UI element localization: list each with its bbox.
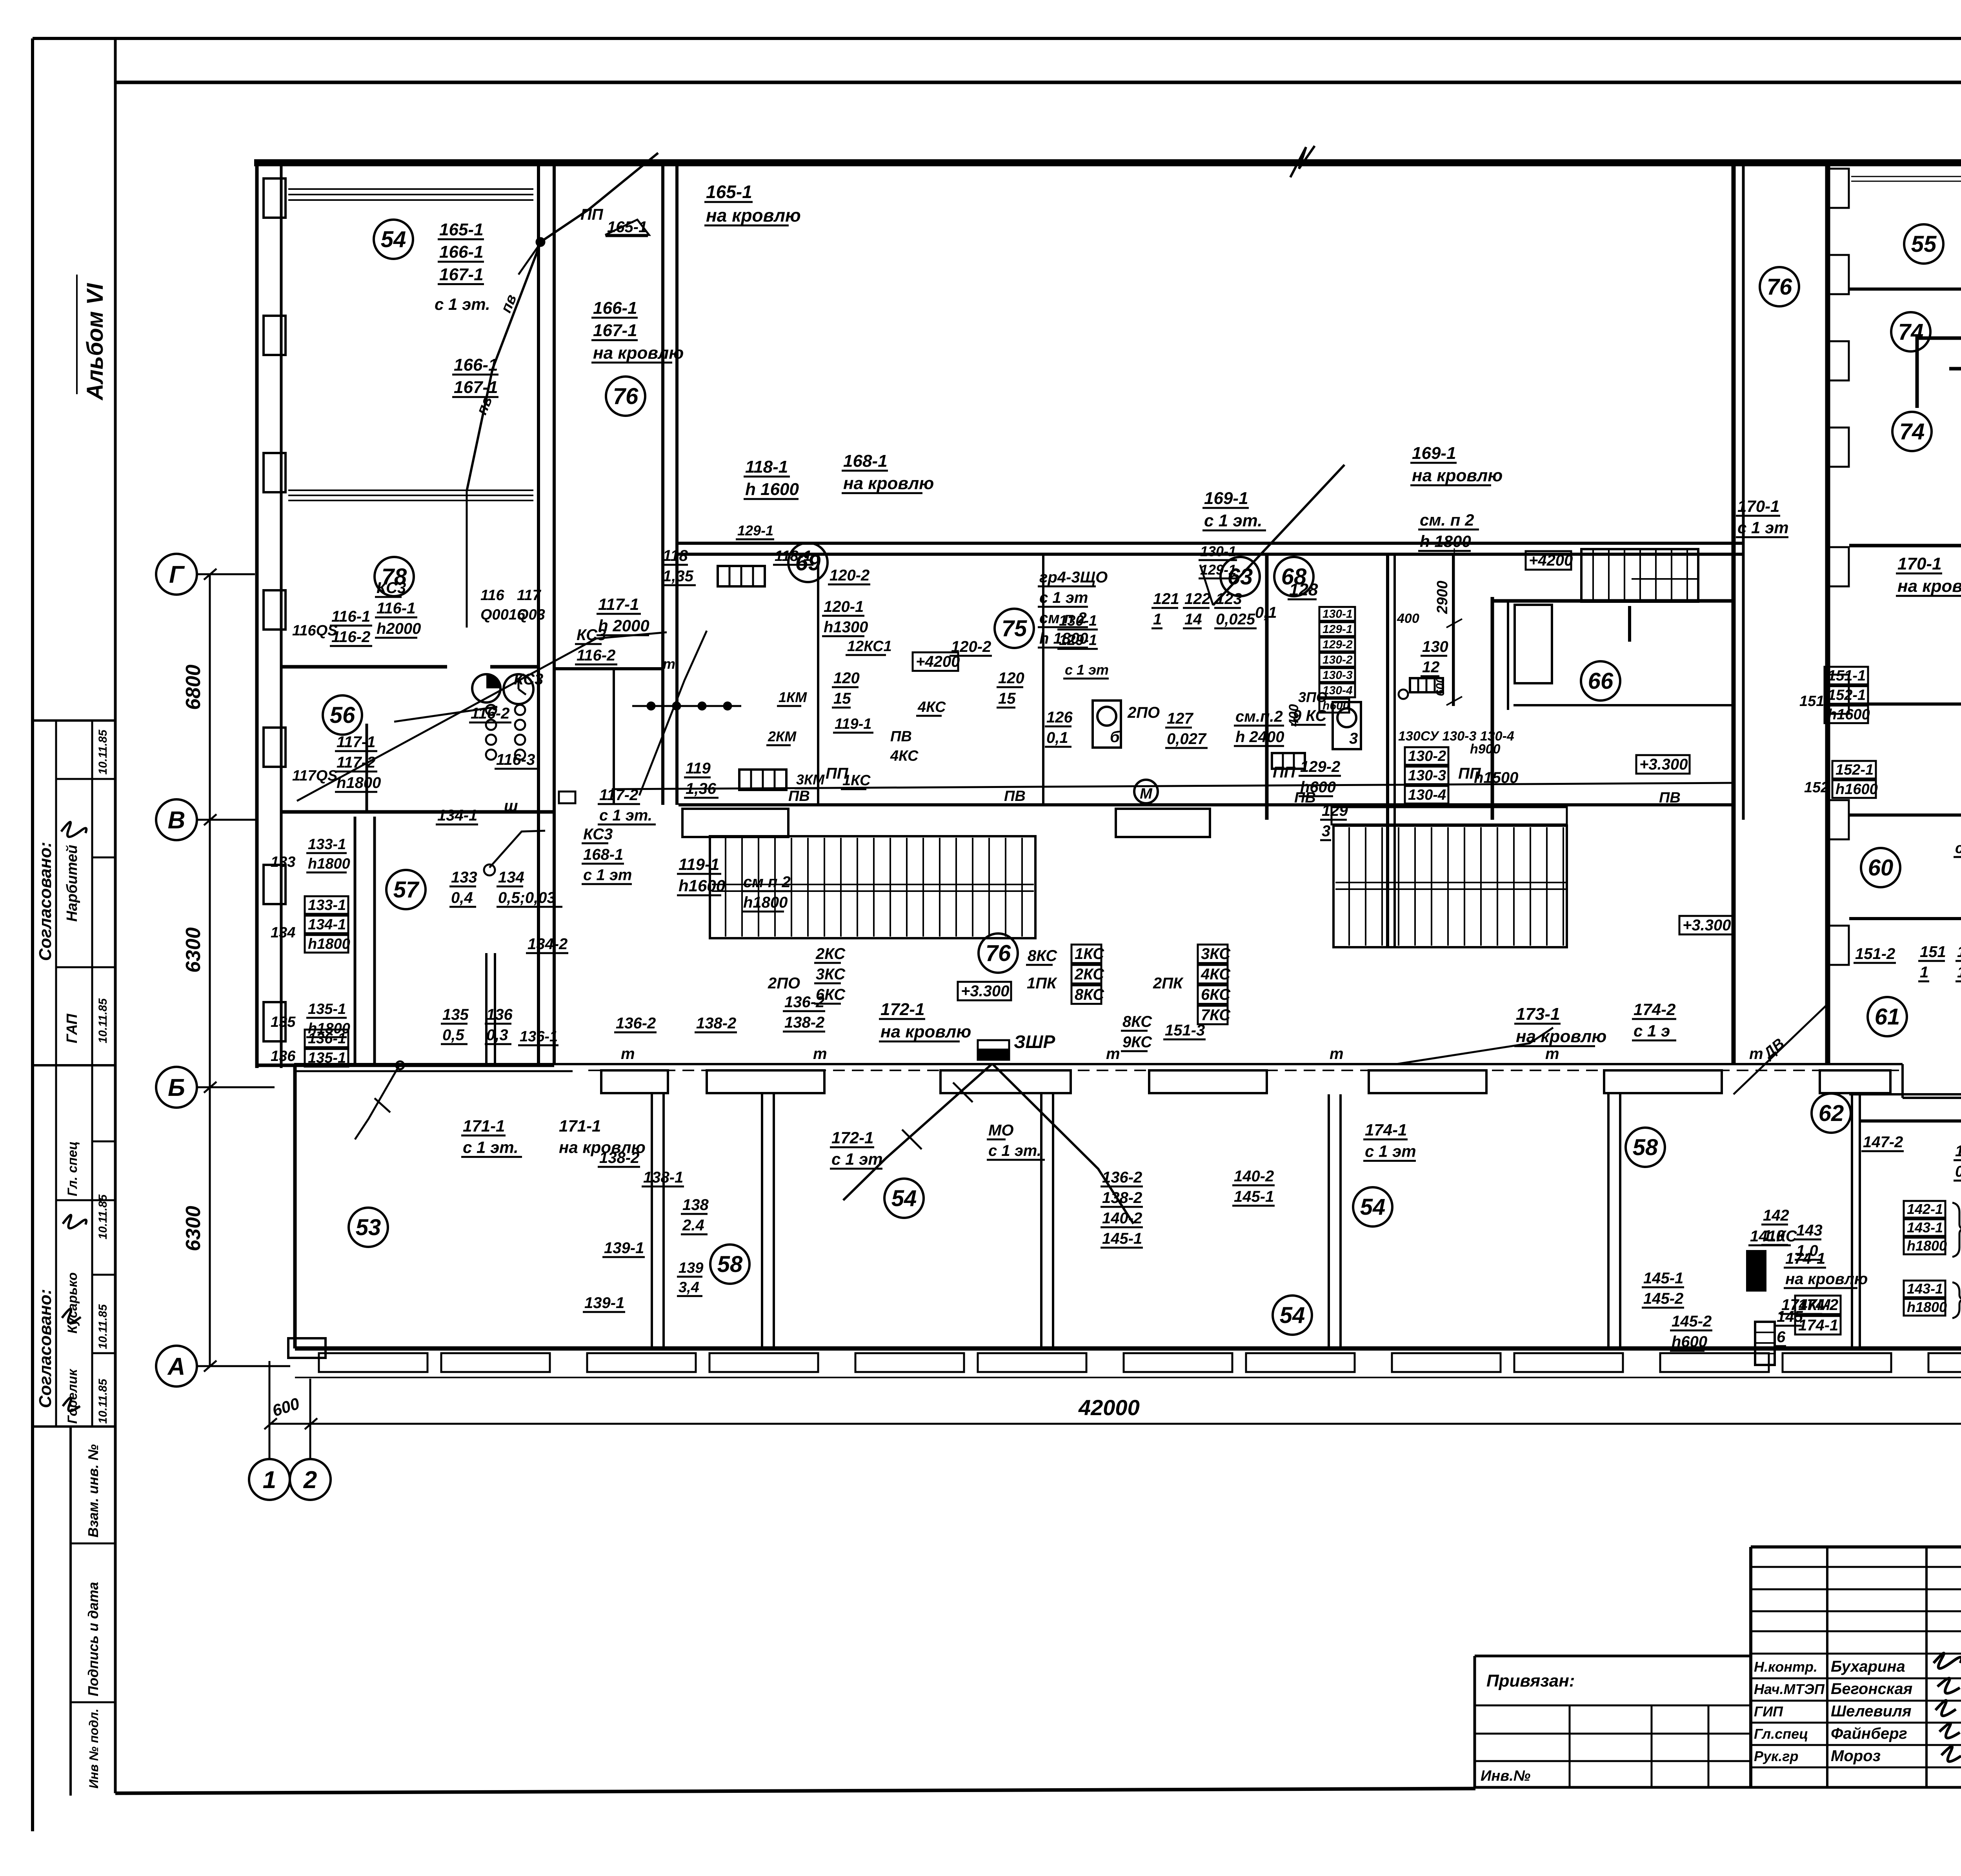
right wing window band	[1851, 181, 1961, 182]
svg-text:140-2: 140-2	[1102, 1210, 1142, 1227]
svg-text:138-2: 138-2	[1102, 1189, 1142, 1206]
label 169-1 a	[1202, 489, 1266, 530]
svg-text:h1800: h1800	[1907, 1299, 1947, 1315]
svg-text:h1300: h1300	[824, 619, 868, 636]
svg-text:0,025: 0,025	[1216, 611, 1255, 628]
svg-text:145-1: 145-1	[1102, 1230, 1142, 1247]
label 147-2	[1861, 1134, 1904, 1151]
label 119 frac	[684, 760, 719, 798]
svg-text:170-1: 170-1	[1737, 497, 1779, 515]
node 129	[1399, 690, 1408, 699]
room 53 west wall	[293, 1065, 297, 1348]
right wing pilaster	[1828, 255, 1849, 294]
svg-text:2.4: 2.4	[682, 1217, 704, 1234]
label 174-1 roof	[1784, 1250, 1868, 1288]
label 139-1 a	[602, 1239, 645, 1257]
svg-text:с 1 эт: с 1 эт	[583, 866, 632, 884]
svg-text:121: 121	[1153, 590, 1179, 608]
axis line B	[197, 1086, 275, 1088]
radiator symbol 119	[739, 770, 786, 790]
sidebar divider	[114, 38, 117, 1793]
room 66 west wall inner	[1507, 601, 1509, 710]
label 120-2 b	[950, 638, 992, 656]
sidebar box Podpis i data	[71, 1701, 115, 1703]
label 130-1 b	[1199, 543, 1237, 579]
partition 54/59	[1849, 702, 1961, 706]
partition mid d	[1265, 554, 1269, 820]
room circle 75	[995, 609, 1034, 648]
svg-text:с 1 эт.: с 1 эт.	[599, 807, 652, 824]
left wing top wall	[254, 159, 572, 166]
svg-text:h600: h600	[1672, 1333, 1707, 1350]
label 152 frac	[1956, 943, 1961, 981]
heater 141 symbol	[1747, 1251, 1765, 1290]
label sm p2 h1800	[1418, 511, 1479, 551]
dim tick	[204, 1082, 216, 1093]
label 140-2	[1232, 1168, 1275, 1206]
svg-text:118-1: 118-1	[775, 548, 811, 564]
label KS3 116-2	[575, 626, 617, 664]
svg-text:56: 56	[330, 702, 355, 728]
room circle 57	[386, 870, 426, 909]
svg-text:167-1: 167-1	[454, 378, 498, 397]
svg-text:2ПО: 2ПО	[1127, 704, 1160, 721]
svg-text:2КС: 2КС	[1074, 966, 1104, 983]
svg-text:143-1: 143-1	[1907, 1219, 1943, 1236]
svg-text:Инв.№: Инв.№	[1481, 1768, 1530, 1784]
svg-text:141КС: 141КС	[1750, 1228, 1797, 1245]
label 118 frac	[661, 547, 696, 585]
svg-text:117-2: 117-2	[599, 786, 638, 804]
label 174-1 b	[1363, 1121, 1416, 1161]
classroom partition	[1859, 1094, 1861, 1349]
label 171-1 a	[461, 1117, 522, 1157]
svg-text:т: т	[663, 656, 675, 672]
label 174KM	[1780, 1296, 1831, 1314]
svg-text:с 1 эт.: с 1 эт.	[1204, 511, 1262, 530]
corridor south wall west part	[294, 1063, 1903, 1065]
svg-text:ГИП: ГИП	[1754, 1703, 1783, 1720]
svg-text:142: 142	[1763, 1207, 1789, 1224]
svg-text:1,35: 1,35	[663, 568, 694, 585]
svg-text:135: 135	[442, 1006, 469, 1023]
svg-text:0,4: 0,4	[451, 889, 473, 906]
stair B top landing	[1332, 807, 1567, 824]
svg-text:Кусарько: Кусарько	[65, 1272, 80, 1334]
label 174-2 b	[1632, 1000, 1676, 1041]
staircase B	[1333, 826, 1567, 947]
svg-text:151-1: 151-1	[1828, 668, 1866, 684]
svg-text:170-1: 170-1	[1897, 554, 1942, 573]
svg-text:3,4: 3,4	[679, 1279, 699, 1296]
svg-text:Гл. спец: Гл. спец	[65, 1141, 80, 1196]
svg-text:116-2: 116-2	[471, 705, 509, 722]
svg-text:с 1 эт.: с 1 эт.	[988, 1142, 1041, 1159]
svg-text:130-2: 130-2	[1322, 653, 1353, 666]
svg-text:54: 54	[1360, 1194, 1386, 1220]
svg-text:6300: 6300	[182, 927, 205, 973]
svg-text:см. п 2: см. п 2	[1420, 511, 1474, 529]
svg-text:118-1: 118-1	[745, 457, 788, 477]
label 116-1	[330, 608, 372, 646]
svg-text:10.11.85: 10.11.85	[96, 1378, 109, 1424]
dim tick	[1446, 697, 1462, 705]
corridor south wall east part	[1903, 1097, 1961, 1099]
svg-text:130-4: 130-4	[1322, 684, 1353, 697]
room circle 78	[375, 557, 414, 596]
svg-text:Q03: Q03	[517, 606, 545, 623]
svg-text:136-1: 136-1	[520, 1028, 558, 1045]
svg-text:152-1: 152-1	[1828, 687, 1866, 703]
svg-text:с 1 эт: с 1 эт	[1039, 589, 1088, 606]
svg-text:h 1600: h 1600	[745, 480, 799, 499]
svg-text:60: 60	[1868, 855, 1894, 881]
svg-text:т: т	[621, 1045, 635, 1063]
svg-text:Б: Б	[168, 1074, 185, 1101]
svg-text:М: М	[1140, 786, 1153, 802]
svg-text:145-1: 145-1	[1643, 1270, 1683, 1287]
svg-text:0,1 0,17: 0,1 0,17	[1955, 1163, 1961, 1180]
svg-text:с 1 эт.: с 1 эт.	[435, 295, 490, 313]
svg-text:ПВ: ПВ	[1004, 788, 1026, 804]
svg-text:57: 57	[393, 877, 420, 903]
label 120-1	[822, 598, 868, 636]
facade window	[1928, 1353, 1961, 1372]
svg-text:133-1: 133-1	[308, 897, 346, 913]
axis line V	[197, 819, 257, 821]
label gr4-3ShchO	[1038, 569, 1108, 648]
axis line G	[197, 573, 255, 575]
privyazan box	[1475, 1655, 1751, 1658]
label 134-1	[436, 807, 478, 824]
svg-text:166-1: 166-1	[454, 355, 498, 375]
svg-text:Файнберг: Файнберг	[1831, 1725, 1907, 1742]
elev +4200 b	[1526, 551, 1573, 570]
svg-text:130-2: 130-2	[1408, 748, 1446, 764]
label 1KM	[777, 689, 807, 706]
label 165-1 roof	[704, 182, 801, 226]
svg-text:152: 152	[1804, 779, 1829, 796]
room circle 62	[1812, 1094, 1851, 1133]
wire PP top-left to roof	[467, 243, 540, 491]
partition mid c	[1042, 554, 1044, 806]
closet wall a	[354, 817, 357, 1065]
svg-text:122: 122	[1184, 590, 1211, 608]
svg-text:на кровлю: на кровлю	[1412, 466, 1503, 485]
svg-text:В: В	[168, 807, 186, 834]
title row name	[1751, 1700, 1961, 1702]
label 136-2 c	[783, 993, 825, 1032]
outer border left	[31, 38, 34, 1831]
svg-text:ГАП: ГАП	[64, 1014, 80, 1043]
svg-text:8КС: 8КС	[1122, 1013, 1152, 1030]
dim tick	[204, 1361, 216, 1372]
svg-text:на кровлю: на кровлю	[880, 1022, 971, 1041]
svg-text:0,3: 0,3	[486, 1026, 508, 1044]
label 3KM	[795, 772, 825, 788]
svg-text:12: 12	[1422, 659, 1440, 676]
hall east wall outer	[1732, 163, 1736, 1065]
svg-text:129-1: 129-1	[1322, 623, 1353, 636]
label 129 frac	[1320, 802, 1348, 840]
hall top wall	[572, 159, 1743, 166]
room circle 54	[884, 1179, 924, 1218]
svg-text:167-1: 167-1	[593, 321, 637, 340]
facade window	[1246, 1353, 1355, 1372]
title row name	[1751, 1744, 1961, 1746]
classroom partition	[761, 1094, 763, 1349]
axis dim chain	[209, 574, 211, 1366]
partition 59/60	[1849, 813, 1961, 817]
room 53 top wall inner	[294, 1070, 573, 1072]
room 57 inner wall b	[494, 953, 496, 1065]
svg-text:Мороз: Мороз	[1831, 1747, 1881, 1765]
west facade pilaster	[264, 865, 286, 904]
label 142 frac	[1761, 1207, 1789, 1245]
svg-text:147-2: 147-2	[1863, 1134, 1903, 1151]
svg-text:с 1 эт: с 1 эт	[1065, 662, 1109, 678]
svg-text:133-1: 133-1	[308, 836, 346, 853]
svg-text:Согласовано:: Согласовано:	[36, 842, 55, 961]
sidebar signatures block B	[62, 1215, 86, 1411]
svg-text:0,5;0,03: 0,5;0,03	[498, 889, 556, 906]
svg-text:Бухарина: Бухарина	[1831, 1658, 1905, 1675]
svg-text:МО: МО	[988, 1122, 1013, 1139]
facade window	[1124, 1353, 1232, 1372]
wires at ZShR	[843, 1064, 992, 1200]
label 166-1 roof	[591, 298, 684, 362]
corridor cabinet	[1369, 1070, 1486, 1093]
svg-text:130-1: 130-1	[1059, 613, 1097, 629]
svg-text:136-1: 136-1	[308, 1030, 346, 1047]
label 9KS	[1291, 707, 1327, 725]
svg-text:+4200: +4200	[1529, 552, 1573, 569]
svg-text:т: т	[813, 1045, 827, 1063]
svg-text:117-2: 117-2	[337, 754, 375, 771]
title block	[1751, 1545, 1961, 1548]
svg-text:151-3: 151-3	[1165, 1022, 1205, 1039]
svg-text:129-2: 129-2	[1300, 758, 1340, 775]
svg-text:Гл.спец: Гл.спец	[1754, 1726, 1808, 1742]
svg-text:123: 123	[1216, 590, 1242, 608]
svg-text:136: 136	[271, 1048, 296, 1064]
label PV 4KS	[890, 728, 919, 764]
svg-text:134: 134	[498, 869, 524, 886]
room circle 68	[1274, 557, 1313, 596]
svg-text:1КС: 1КС	[1075, 945, 1104, 963]
dim tick bottom	[305, 1418, 317, 1429]
wire riser to KS3 168-1	[639, 631, 707, 795]
svg-text:118: 118	[663, 547, 688, 564]
hall bottom wall inner	[677, 553, 1743, 556]
elev +3300 a	[958, 982, 1011, 1000]
label 170-1 a	[1736, 497, 1789, 537]
west facade pilaster	[264, 178, 286, 218]
room 74 maze partitions	[1917, 338, 1961, 408]
svg-text:12КС1: 12КС1	[847, 638, 892, 655]
svg-text:142-1: 142-1	[1907, 1201, 1943, 1217]
svg-text:54: 54	[1280, 1303, 1305, 1328]
svg-text:400: 400	[1397, 611, 1419, 626]
signatures squiggles	[1934, 1653, 1961, 1762]
label 8KS a	[1026, 947, 1057, 965]
west facade pilaster	[264, 590, 286, 630]
svg-text:128: 128	[1289, 580, 1318, 599]
svg-text:127: 127	[1167, 710, 1193, 727]
svg-text:15: 15	[998, 690, 1016, 707]
svg-text:134: 134	[271, 924, 295, 941]
outer border top	[33, 37, 1961, 40]
wire diagonal 173-1	[1396, 1028, 1553, 1064]
svg-text:145-1: 145-1	[1234, 1188, 1274, 1205]
radiator symbol 129	[1410, 678, 1443, 692]
label 141KS	[1748, 1228, 1797, 1245]
wire 169-1 diagonal	[1213, 465, 1344, 605]
svg-text:h1800: h1800	[308, 855, 350, 872]
label 2KS stack	[814, 945, 846, 1004]
label sm p2 b	[1954, 840, 1961, 857]
svg-text:Подпись и дата: Подпись и дата	[85, 1582, 101, 1696]
svg-text:145-2: 145-2	[1643, 1290, 1683, 1307]
svg-text:136-2: 136-2	[784, 993, 824, 1011]
label 117-2	[598, 786, 656, 824]
sidebar table A	[33, 719, 115, 722]
label 122	[1183, 590, 1211, 628]
classroom partition	[1328, 1094, 1330, 1349]
label 174-2 stack	[1795, 1296, 1841, 1334]
svg-text:139: 139	[679, 1260, 703, 1276]
bottom dimension line 42000	[271, 1423, 1961, 1425]
svg-text:с 1 эт: с 1 эт	[831, 1150, 883, 1168]
room 66 partition	[1513, 704, 1732, 706]
label 172-1 roof	[879, 1000, 971, 1041]
svg-text:129-1: 129-1	[1059, 632, 1097, 648]
svg-text:h 2400: h 2400	[1235, 728, 1284, 746]
svg-text:на кровлю: на кровлю	[843, 474, 934, 493]
svg-text:КС3: КС3	[377, 579, 406, 597]
svg-text:120: 120	[833, 670, 860, 687]
svg-text:119-1: 119-1	[835, 716, 871, 732]
right wing pilaster	[1828, 169, 1849, 208]
svg-text:74: 74	[1898, 319, 1924, 345]
svg-text:h1800: h1800	[308, 936, 350, 952]
svg-text:8КС: 8КС	[1028, 947, 1057, 964]
title row name	[1751, 1678, 1961, 1679]
label 4KS	[916, 699, 946, 716]
svg-text:Горелик: Горелик	[65, 1368, 80, 1424]
break mark top wall	[1290, 146, 1315, 177]
svg-text:117: 117	[517, 587, 541, 604]
svg-text:с 1 э: с 1 э	[1634, 1022, 1670, 1040]
label 151-3	[1163, 1022, 1206, 1039]
title col	[1925, 1547, 1928, 1787]
label 134 frac	[497, 869, 562, 907]
svg-text:+3.300: +3.300	[1683, 917, 1731, 934]
svg-text:см.п.2: см.п.2	[1235, 708, 1283, 725]
sidebar box Vzam inv	[69, 1427, 72, 1796]
svg-text:10.11.85: 10.11.85	[96, 1194, 109, 1239]
dim tick	[204, 569, 216, 580]
facade window	[1660, 1353, 1769, 1372]
svg-text:h2000: h2000	[377, 620, 421, 637]
label 173-1	[1514, 1004, 1606, 1046]
svg-text:Инв № подл.: Инв № подл.	[87, 1709, 101, 1789]
hall west wall inner	[675, 163, 679, 805]
small room partition y1705	[554, 667, 663, 670]
svg-text:129-1: 129-1	[737, 522, 773, 539]
partition 56/57	[280, 810, 554, 814]
svg-text:6800: 6800	[182, 664, 205, 710]
label 1KS	[841, 772, 871, 789]
label 2KM	[766, 728, 797, 745]
radiator symbol 118	[718, 566, 765, 586]
partition 60/61	[1849, 917, 1961, 920]
radiator symbol 130	[1272, 753, 1305, 769]
svg-text:КС3: КС3	[577, 626, 606, 644]
bottom facade wall	[295, 1346, 1961, 1351]
svg-text:+3.300: +3.300	[961, 983, 1009, 1000]
svg-text:135-1: 135-1	[308, 1001, 346, 1017]
svg-text:42000: 42000	[1078, 1395, 1140, 1420]
svg-text:133: 133	[271, 854, 295, 870]
label 130-1/129-1	[1057, 613, 1098, 649]
sidebar signature block A	[61, 822, 86, 837]
label 135 frac	[441, 1006, 469, 1044]
label 138-2 b	[695, 1015, 737, 1032]
label KS3 168-1	[582, 826, 632, 884]
svg-text:h1600: h1600	[679, 877, 725, 895]
facade window	[441, 1353, 550, 1372]
wire 117-1 leader diagonal	[297, 632, 667, 801]
svg-text:9КС: 9КС	[1122, 1034, 1152, 1051]
svg-text:10.11.85: 10.11.85	[96, 998, 109, 1043]
svg-text:1: 1	[1153, 611, 1162, 628]
svg-text:Взам. инв. №: Взам. инв. №	[85, 1444, 101, 1538]
svg-text:2КМ: 2КМ	[768, 728, 797, 744]
facade window	[1783, 1353, 1891, 1372]
heater 145 symbol	[1755, 1322, 1775, 1365]
label 136 frac	[485, 1006, 513, 1044]
label 136	[305, 1030, 348, 1066]
svg-text:с 1 эт: с 1 эт	[1365, 1142, 1416, 1161]
room circle 76	[606, 377, 645, 416]
room circle 63	[1221, 557, 1260, 596]
label 130 frac	[1421, 638, 1448, 676]
svg-text:117-1: 117-1	[598, 595, 639, 613]
svg-text:136-2: 136-2	[616, 1015, 656, 1032]
right wing pilaster	[1828, 926, 1849, 965]
corridor wall step	[1901, 1064, 1904, 1098]
svg-text:h1600: h1600	[1828, 706, 1870, 723]
svg-text:КС3: КС3	[583, 826, 613, 843]
svg-text:143-1: 143-1	[1907, 1281, 1943, 1297]
svg-text:Согласовано:: Согласовано:	[36, 1289, 55, 1408]
label 165-1 flag	[606, 218, 648, 236]
facade window	[1392, 1353, 1501, 1372]
svg-text:h600: h600	[1300, 779, 1336, 796]
svg-text:Бегонская: Бегонская	[1831, 1680, 1912, 1698]
svg-text:165-1: 165-1	[706, 182, 752, 202]
svg-text:134-1: 134-1	[437, 807, 477, 824]
svg-text:120: 120	[998, 670, 1024, 687]
label 117	[517, 587, 545, 623]
label 145-1	[1642, 1270, 1684, 1308]
room circle 74	[1892, 412, 1932, 451]
svg-text:76: 76	[613, 384, 639, 409]
label 151 frac	[1918, 943, 1946, 981]
svg-text:ПП: ПП	[1273, 764, 1296, 781]
svg-text:171-1: 171-1	[463, 1117, 505, 1135]
